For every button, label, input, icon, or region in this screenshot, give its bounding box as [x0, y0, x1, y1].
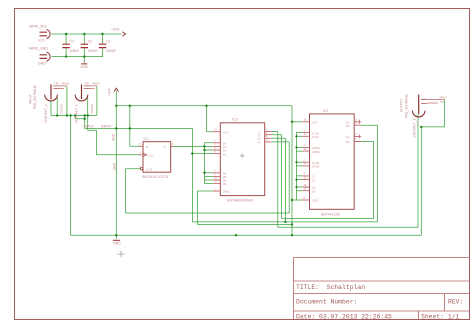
svg-text:GND: GND — [38, 62, 46, 66]
svg-text:OUTPUT: OUTPUT — [400, 99, 404, 112]
svg-text:CLK: CLK — [148, 154, 154, 158]
svg-text:INPUT: INPUT — [29, 94, 33, 104]
svg-text:RING: RING — [93, 81, 100, 85]
svg-text:SN74F112D: SN74F112D — [321, 213, 340, 217]
svg-text:VCC: VCC — [223, 130, 229, 134]
svg-text:SN74AS1000AD: SN74AS1000AD — [227, 199, 254, 203]
svg-text:GND: GND — [312, 199, 318, 203]
svg-text:IC2: IC2 — [323, 109, 329, 113]
svg-text:2PRE: 2PRE — [312, 150, 320, 154]
svg-text:D: D — [146, 145, 148, 149]
svg-text:GND: GND — [80, 65, 88, 69]
svg-text:REV:: REV: — [448, 299, 463, 306]
svg-text:INPUT: INPUT — [84, 124, 95, 128]
svg-text:100nF: 100nF — [106, 49, 116, 53]
svg-text:+3V3: +3V3 — [111, 28, 119, 32]
svg-text:4B: 4B — [223, 182, 227, 186]
svg-text:SLEEVE: SLEEVE — [60, 104, 64, 114]
svg-text:+3V3: +3V3 — [108, 88, 112, 96]
svg-text:C1: C1 — [70, 40, 75, 44]
svg-text:4Y: 4Y — [258, 141, 262, 145]
svg-text:RING: RING — [62, 81, 69, 85]
svg-text:TIP: TIP — [54, 81, 58, 85]
svg-text:CONTACT_1: CONTACT_1 — [413, 119, 417, 138]
svg-text:IC3: IC3 — [232, 118, 238, 122]
svg-text:CONTACT_1: CONTACT_1 — [75, 104, 79, 123]
svg-text:PAD_SCHRAUB: PAD_SCHRAUB — [33, 85, 37, 109]
svg-text:TIP: TIP — [440, 100, 444, 104]
svg-text:TITLE: Schaltplan: TITLE: Schaltplan — [296, 284, 365, 291]
svg-text:CONTACT_1: CONTACT_1 — [44, 104, 48, 123]
svg-text:GND: GND — [113, 241, 121, 245]
svg-text:2CLK: 2CLK — [312, 135, 319, 139]
svg-text:SLEEVE: SLEEVE — [90, 104, 94, 114]
svg-text:Date: 03.07.2013 22:26:45: Date: 03.07.2013 22:26:45 — [296, 314, 392, 321]
svg-text:PAD_SCHRAUB: PAD_SCHRAUB — [405, 94, 409, 118]
svg-text:WIRE_GND: WIRE_GND — [29, 47, 48, 51]
svg-text:CLR: CLR — [146, 167, 152, 171]
svg-text:2K: 2K — [312, 189, 316, 193]
svg-text:SN74LVC1G175: SN74LVC1G175 — [142, 175, 168, 179]
svg-text:4A: 4A — [223, 152, 227, 156]
svg-text:TIP: TIP — [85, 81, 89, 85]
svg-text:IC1: IC1 — [144, 137, 150, 141]
svg-text:VCC: VCC — [312, 121, 318, 125]
svg-text:INPUT: INPUT — [101, 125, 112, 129]
svg-text:GND: GND — [113, 162, 117, 170]
svg-text:C3: C3 — [106, 40, 111, 44]
svg-text:GND: GND — [112, 133, 116, 141]
svg-text:100nF: 100nF — [88, 49, 98, 53]
svg-text:2CLR: 2CLR — [312, 165, 319, 169]
svg-text:GND: GND — [223, 190, 229, 194]
svg-text:C2: C2 — [88, 40, 93, 44]
svg-text:WIRE_3V3: WIRE_3V3 — [29, 25, 46, 29]
svg-text:Document Number:: Document Number: — [296, 299, 357, 306]
svg-text:100nF: 100nF — [70, 49, 80, 53]
svg-text:Sheet: 1/1: Sheet: 1/1 — [421, 314, 460, 321]
svg-text:VCC: VCC — [38, 39, 46, 43]
